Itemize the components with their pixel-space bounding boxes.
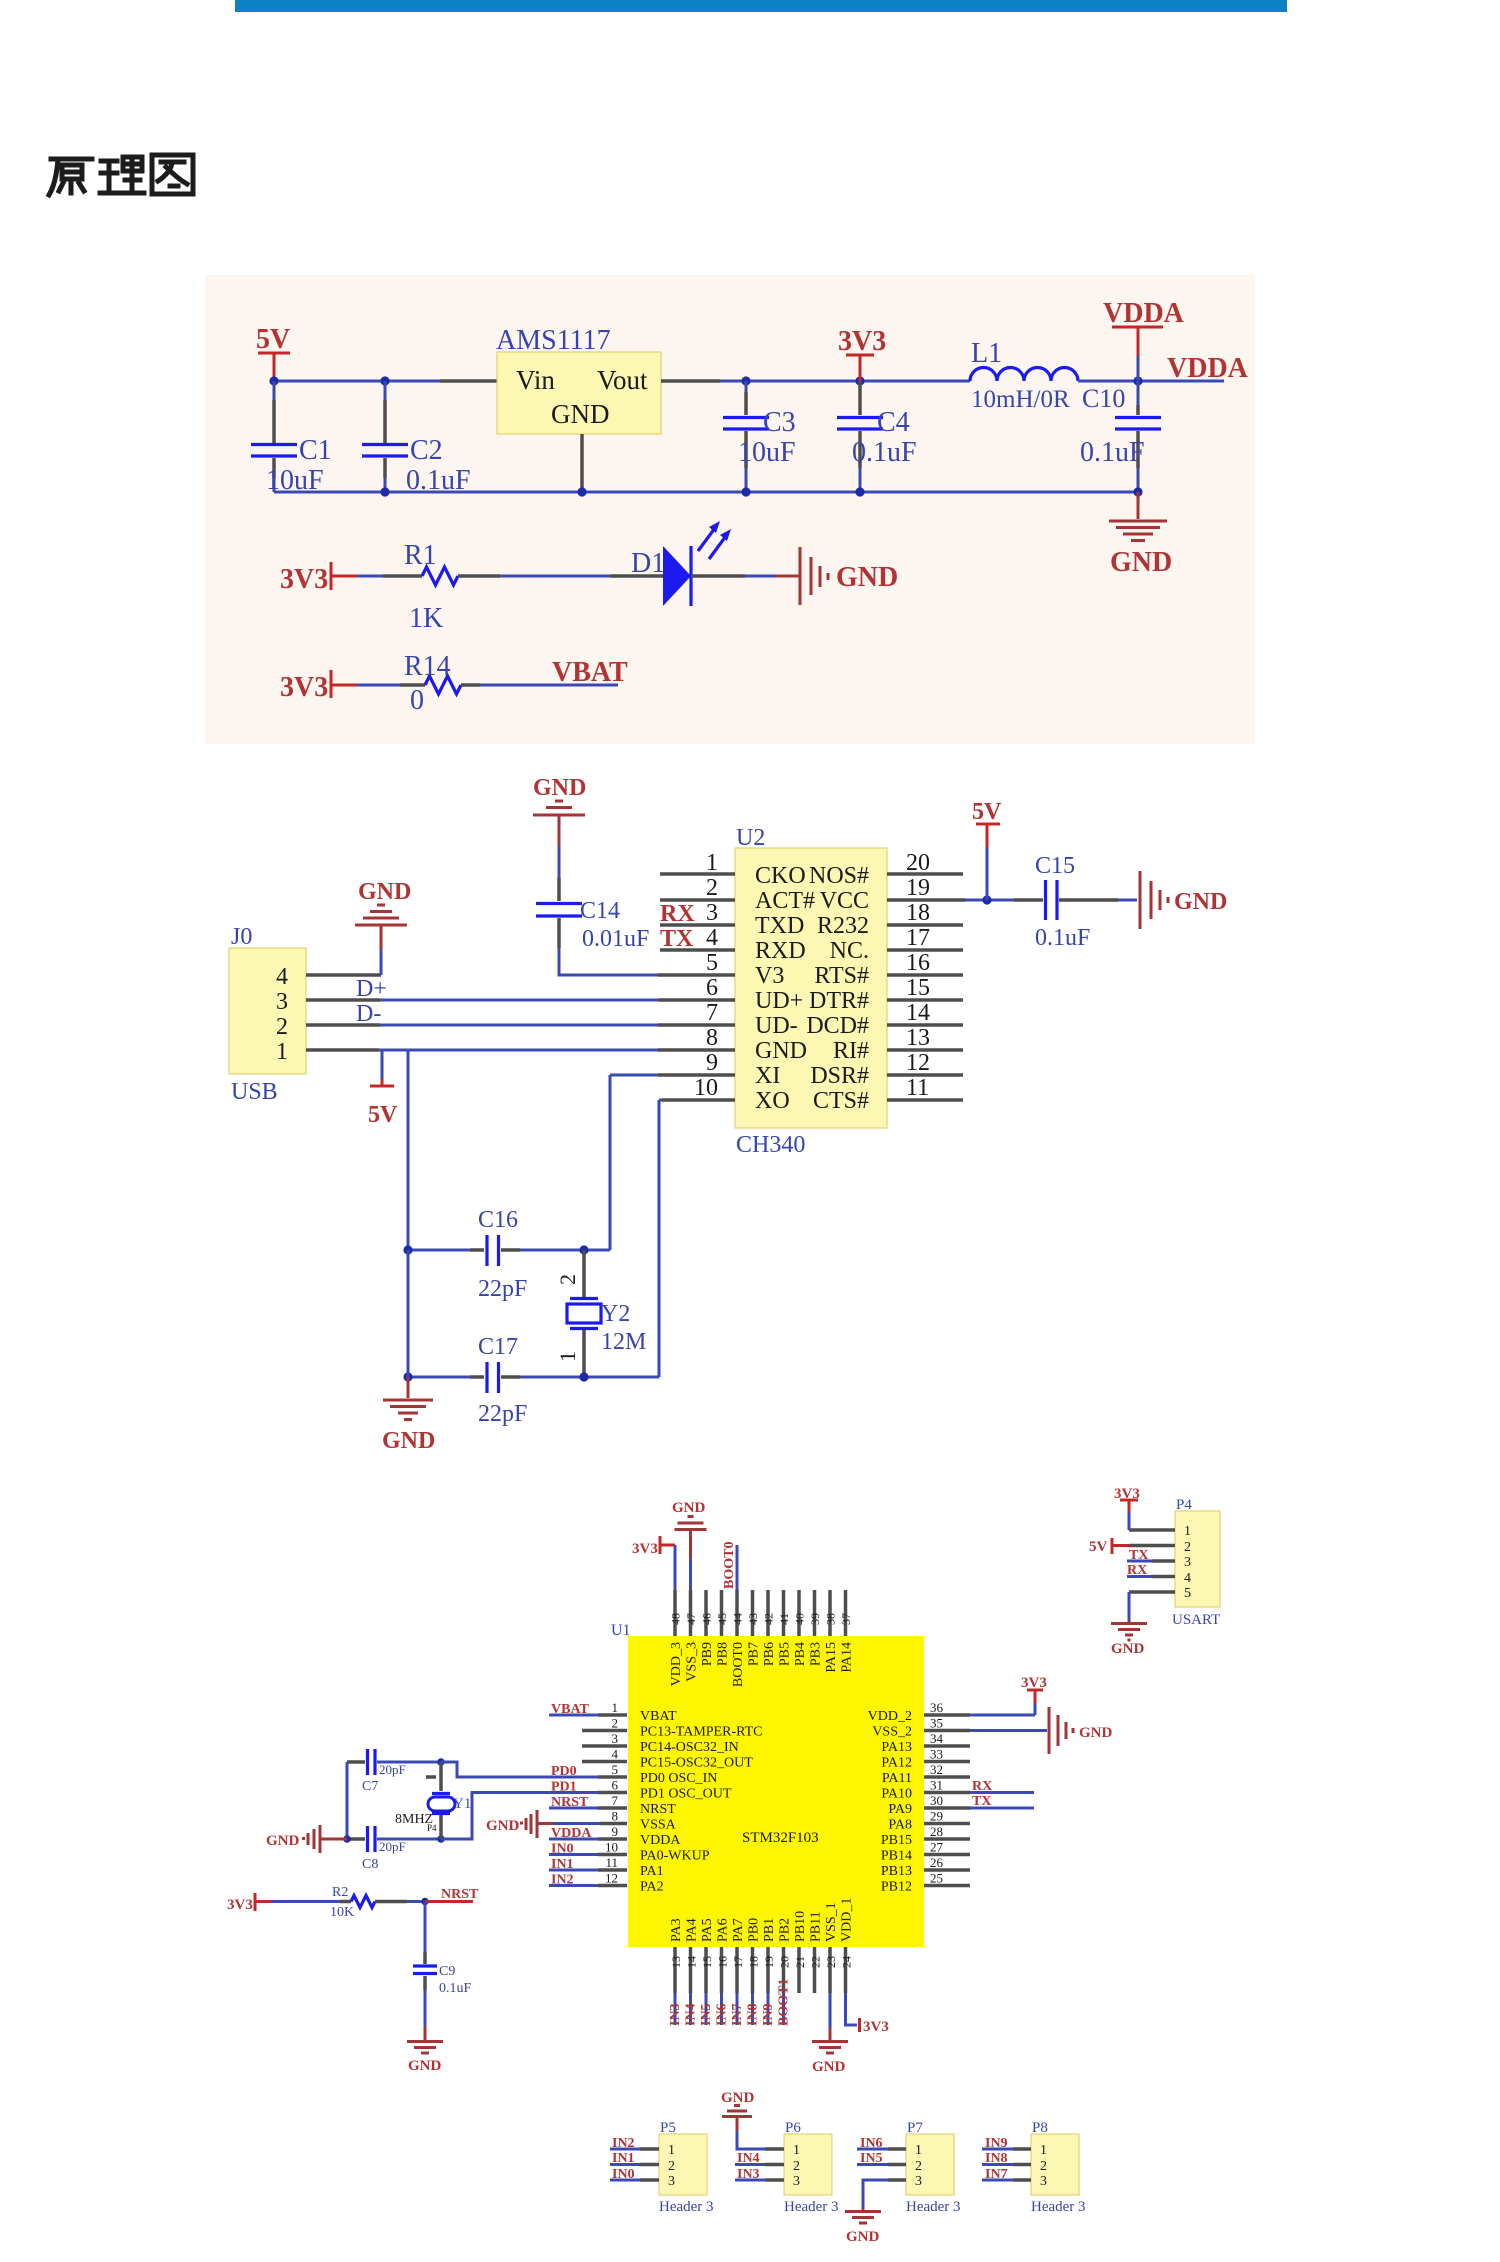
junction 5V/C1: [269, 376, 278, 385]
svg-text:36: 36: [930, 1700, 944, 1715]
svg-text:35: 35: [930, 1716, 943, 1731]
svg-text:PB8: PB8: [716, 1642, 731, 1666]
svg-text:DCD#: DCD#: [806, 1013, 869, 1039]
svg-text:IN1: IN1: [612, 2151, 635, 2166]
junction C17 left: [403, 1372, 412, 1381]
svg-text:3: 3: [276, 989, 288, 1015]
wire R2 to NRST node: [407, 1900, 425, 1903]
svg-text:22pF: 22pF: [478, 1401, 527, 1427]
svg-text:15: 15: [906, 975, 930, 1001]
junction NRST: [421, 1898, 429, 1906]
svg-text:PA2: PA2: [640, 1880, 664, 1895]
P5 pin numbers: [668, 2143, 675, 2189]
svg-text:42: 42: [762, 1613, 776, 1625]
svg-text:IN2: IN2: [612, 2136, 635, 2151]
svg-text:0.1uF: 0.1uF: [852, 437, 917, 468]
svg-text:Header 3: Header 3: [906, 2199, 961, 2215]
svg-text:3V3: 3V3: [632, 1541, 658, 1557]
power port 3V3 top of U1: [632, 1536, 675, 1590]
svg-text:V3: V3: [755, 963, 784, 989]
svg-text:GND: GND: [672, 1500, 706, 1516]
wire XI vertical: [609, 1075, 612, 1250]
svg-text:PB9: PB9: [700, 1642, 715, 1666]
crystal Y1: [395, 1762, 471, 1839]
ground GND below P7: [845, 2208, 881, 2245]
svg-text:IN2: IN2: [551, 1873, 574, 1888]
svg-text:C2: C2: [410, 435, 443, 466]
wire net D-: [380, 1024, 658, 1027]
svg-text:3V3: 3V3: [280, 564, 328, 595]
U1 left net wires: [549, 1715, 600, 1886]
junction Y1 top: [437, 1758, 445, 1766]
P7 pin numbers: [915, 2143, 922, 2189]
diode D1 LED: [610, 521, 745, 606]
wire R14 to VBAT: [480, 684, 618, 687]
svg-text:PD1 OSC_OUT: PD1 OSC_OUT: [640, 1787, 732, 1802]
svg-text:1: 1: [1184, 1524, 1191, 1539]
page title 原理图 (drawn glyphs): [49, 155, 193, 195]
svg-text:25: 25: [930, 1871, 943, 1886]
svg-text:13: 13: [906, 1025, 930, 1051]
svg-text:2: 2: [555, 1274, 580, 1285]
svg-text:P5: P5: [660, 2120, 676, 2136]
U1 left pin stubs: [582, 1715, 627, 1886]
net label NRST: [425, 1887, 479, 1902]
wire ground rail: [274, 491, 1138, 494]
svg-text:GND: GND: [1111, 1641, 1145, 1657]
svg-text:C10: C10: [1082, 384, 1125, 413]
svg-text:USB: USB: [231, 1079, 278, 1105]
U1 left pin numbers: [605, 1700, 619, 1886]
junction C2 bottom: [380, 487, 389, 496]
wire VCC node: [965, 899, 1014, 902]
svg-text:13: 13: [669, 1956, 683, 1968]
svg-text:XO: XO: [755, 1088, 790, 1114]
svg-text:IN9: IN9: [985, 2136, 1008, 2151]
svg-text:3V3: 3V3: [280, 672, 328, 703]
svg-text:10mH/0R: 10mH/0R: [971, 386, 1070, 413]
svg-text:RI#: RI#: [833, 1038, 869, 1064]
wire PD0 net: [441, 1762, 549, 1777]
svg-text:38: 38: [824, 1613, 838, 1625]
svg-text:8: 8: [706, 1025, 718, 1051]
inductor L1: [970, 338, 1078, 413]
svg-text:18: 18: [747, 1956, 761, 1968]
P4 pin4 net RX: [1127, 1563, 1175, 1578]
svg-text:1: 1: [1040, 2143, 1047, 2158]
svg-text:16: 16: [716, 1956, 730, 1968]
svg-text:BOOT0: BOOT0: [722, 1542, 737, 1589]
U2 left pin names: [755, 863, 815, 1114]
svg-text:C14: C14: [580, 898, 620, 924]
junction AMS GND: [577, 487, 586, 496]
U2 pin8 stub: [658, 1048, 735, 1052]
svg-text:GND: GND: [721, 2090, 755, 2106]
svg-text:D1: D1: [631, 548, 665, 579]
svg-text:20: 20: [778, 1956, 792, 1968]
svg-text:PC15-OSC32_OUT: PC15-OSC32_OUT: [640, 1756, 753, 1771]
svg-text:2: 2: [612, 1716, 619, 1731]
regulator U AMS1117: [496, 325, 661, 434]
svg-text:PB4: PB4: [793, 1642, 808, 1666]
svg-text:RX: RX: [972, 1779, 992, 1794]
wire C9 to GND: [424, 1990, 427, 2026]
wire R1 to D1: [500, 575, 610, 578]
svg-text:3V3: 3V3: [863, 2019, 889, 2035]
svg-text:PA11: PA11: [882, 1771, 912, 1786]
net labels U1 left: [551, 1702, 592, 1888]
svg-text:PB2: PB2: [778, 1918, 793, 1942]
power port VDDA top: [1103, 298, 1185, 381]
svg-text:C9: C9: [439, 1964, 455, 1979]
junction C10 bottom: [1133, 487, 1142, 496]
resistor R2: [330, 1885, 407, 1920]
power port 3V3 above P4: [1114, 1486, 1140, 1530]
svg-text:GND: GND: [836, 562, 898, 593]
svg-text:UD+: UD+: [755, 988, 803, 1014]
ground GND above J0: [355, 879, 411, 950]
junction C2 top: [380, 376, 389, 385]
svg-text:41: 41: [777, 1613, 791, 1625]
svg-text:VBAT: VBAT: [640, 1709, 677, 1724]
P6 pin numbers: [793, 2143, 800, 2189]
connector J0 box: [229, 924, 306, 1105]
IC U2 box: [735, 825, 887, 1158]
wire crystal left rail: [346, 1762, 349, 1839]
svg-text:33: 33: [930, 1747, 943, 1762]
capacitor C16: [470, 1207, 527, 1302]
wire pin Vin: [440, 379, 497, 383]
connector P7 box: [906, 2120, 961, 2215]
svg-text:IN8: IN8: [985, 2151, 1008, 2166]
svg-text:VDDA: VDDA: [1103, 298, 1185, 329]
svg-text:3: 3: [793, 2174, 800, 2189]
svg-text:VSSA: VSSA: [640, 1818, 677, 1833]
svg-text:R1: R1: [404, 540, 437, 571]
svg-text:GND: GND: [266, 1833, 300, 1849]
svg-text:5V: 5V: [256, 324, 290, 355]
svg-text:9: 9: [706, 1050, 718, 1076]
U1 right pin numbers: [930, 1700, 944, 1886]
ground GND above P6: [721, 2090, 755, 2131]
U2 pin3 stub / net RX: [660, 901, 735, 927]
svg-text:3: 3: [1040, 2174, 1047, 2189]
svg-text:P8: P8: [1032, 2120, 1048, 2136]
svg-text:20pF: 20pF: [379, 1839, 406, 1854]
svg-text:0: 0: [410, 685, 424, 716]
junction C3 bottom: [741, 487, 750, 496]
junction VDDA node: [1133, 376, 1142, 385]
svg-text:NRST: NRST: [441, 1887, 479, 1902]
svg-text:IN0: IN0: [612, 2167, 635, 2182]
svg-text:GND: GND: [382, 1428, 435, 1454]
svg-text:2: 2: [706, 875, 718, 901]
svg-text:U1: U1: [611, 1622, 631, 1639]
capacitor C8: [347, 1826, 441, 1872]
svg-text:PC14-OSC32_IN: PC14-OSC32_IN: [640, 1740, 739, 1755]
svg-text:PB10: PB10: [793, 1911, 808, 1942]
svg-text:GND: GND: [533, 775, 586, 801]
svg-text:0.1uF: 0.1uF: [1080, 437, 1145, 468]
svg-text:IN3: IN3: [737, 2167, 760, 2182]
svg-text:22: 22: [809, 1956, 823, 1968]
svg-text:24: 24: [840, 1956, 854, 1968]
svg-text:48: 48: [669, 1613, 683, 1625]
svg-text:0.01uF: 0.01uF: [582, 926, 649, 952]
svg-text:3: 3: [1184, 1555, 1191, 1570]
ground GND at VSSA: [486, 1810, 554, 1838]
power port 3V3 below U1 (VDD_1): [846, 1993, 889, 2035]
svg-text:L1: L1: [971, 338, 1002, 369]
svg-text:11: 11: [906, 1075, 929, 1101]
top blue banner bar: [235, 0, 1287, 12]
svg-text:34: 34: [930, 1731, 944, 1746]
U1 top port names: [669, 1642, 855, 1687]
svg-text:TX: TX: [972, 1794, 991, 1809]
U2 pin5 stub: [658, 973, 735, 977]
wire 3V3 to R14: [357, 684, 400, 687]
junction C4 top: [855, 376, 864, 385]
svg-text:Y2: Y2: [601, 1301, 630, 1327]
svg-text:6: 6: [706, 975, 718, 1001]
wire C16 row: [408, 1249, 610, 1252]
U1 bottom pin numbers: [669, 1956, 854, 1968]
junction C16 right / Y2 top: [579, 1245, 588, 1254]
svg-text:PA8: PA8: [888, 1818, 912, 1833]
P6 pin3 net IN3: [735, 2167, 784, 2182]
ground GND right of C15: [1140, 871, 1227, 929]
svg-text:20: 20: [906, 850, 930, 876]
P4 pin5 wire to GND: [1129, 1592, 1175, 1620]
svg-text:NRST: NRST: [551, 1795, 589, 1810]
svg-text:VSS_3: VSS_3: [685, 1642, 700, 1682]
svg-text:1: 1: [276, 1039, 288, 1065]
svg-text:8: 8: [612, 1809, 619, 1824]
wire L1 to VDDA node: [1078, 380, 1224, 383]
svg-text:PA4: PA4: [685, 1918, 700, 1942]
svg-text:12: 12: [906, 1050, 930, 1076]
svg-text:17: 17: [731, 1956, 745, 1968]
U2 pin10 stub: [659, 1099, 735, 1102]
svg-text:PA5: PA5: [700, 1918, 715, 1942]
svg-text:27: 27: [930, 1840, 944, 1855]
svg-text:PA9: PA9: [888, 1802, 912, 1817]
svg-text:GND: GND: [1079, 1725, 1113, 1741]
wire AMS1117 GND pin: [580, 434, 584, 492]
capacitor C2: [362, 381, 471, 496]
U2 right pin names: [806, 863, 869, 1114]
svg-text:C7: C7: [362, 1779, 378, 1794]
svg-text:10K: 10K: [330, 1905, 354, 1920]
P4 pin3 net TX: [1127, 1548, 1175, 1563]
svg-text:IN8: IN8: [746, 2003, 761, 2026]
svg-text:37: 37: [839, 1613, 853, 1625]
capacitor C17: [470, 1334, 527, 1427]
P5 pin1 net IN2: [610, 2136, 659, 2151]
svg-text:14: 14: [906, 1000, 930, 1026]
svg-text:GND: GND: [486, 1818, 520, 1834]
ground GND below P4: [1111, 1620, 1147, 1657]
svg-text:PD1: PD1: [551, 1780, 577, 1795]
svg-text:21: 21: [793, 1956, 807, 1968]
svg-text:PA3: PA3: [669, 1918, 684, 1942]
svg-text:IN7: IN7: [730, 2003, 745, 2026]
svg-text:IN5: IN5: [699, 2003, 714, 2026]
svg-text:IN7: IN7: [985, 2167, 1008, 2182]
svg-text:GND: GND: [358, 879, 411, 905]
svg-text:Y1: Y1: [453, 1796, 471, 1812]
svg-text:PB5: PB5: [778, 1642, 793, 1666]
svg-text:17: 17: [906, 925, 930, 951]
svg-text:VDD_1: VDD_1: [840, 1898, 855, 1942]
power port 3V3 at R2: [227, 1893, 271, 1913]
U2 pin1 stub: [660, 872, 735, 876]
svg-text:GND: GND: [1174, 889, 1227, 915]
svg-text:C8: C8: [362, 1857, 378, 1872]
svg-text:BOOT1: BOOT1: [777, 1979, 792, 2026]
svg-text:IN6: IN6: [860, 2136, 883, 2151]
IC U1 box STM32F103: [611, 1622, 924, 1947]
svg-text:C3: C3: [763, 407, 796, 438]
svg-text:RXD: RXD: [755, 938, 806, 964]
capacitor C14: [536, 846, 649, 952]
wire VSS_1 to GND: [829, 1993, 832, 2028]
svg-text:CTS#: CTS#: [813, 1088, 869, 1114]
svg-text:GND: GND: [846, 2229, 880, 2245]
connector P5 box: [659, 2120, 714, 2215]
U2 pin7 stub: [658, 1023, 735, 1027]
ground GND LED row: [775, 547, 898, 605]
power port 5V below J0: [368, 1050, 398, 1128]
resistor R1: [383, 540, 500, 634]
U2 left pin numbers: [694, 850, 718, 1101]
capacitor C7: [347, 1749, 441, 1794]
svg-text:PA1: PA1: [640, 1864, 664, 1879]
svg-text:19: 19: [906, 875, 930, 901]
wire pin4 up to GND: [380, 950, 383, 975]
svg-text:GND: GND: [408, 2058, 442, 2074]
capacitor C3: [723, 381, 796, 492]
svg-text:CKO: CKO: [755, 863, 806, 889]
U1 bottom pin stubs: [675, 1947, 846, 1993]
svg-text:PB7: PB7: [747, 1642, 762, 1666]
svg-text:0.1uF: 0.1uF: [1035, 925, 1090, 951]
svg-text:C15: C15: [1035, 853, 1075, 879]
svg-text:RTS#: RTS#: [814, 963, 869, 989]
svg-text:6: 6: [612, 1778, 619, 1793]
capacitor C9: [413, 1952, 472, 1996]
svg-text:U2: U2: [736, 825, 765, 851]
svg-text:3: 3: [706, 900, 718, 926]
wire GND vertical below junctions: [407, 1250, 410, 1377]
svg-text:ACT#: ACT#: [755, 888, 815, 914]
svg-text:12M: 12M: [601, 1329, 646, 1355]
nets IN3-IN9 BOOT1 below U1: [675, 1993, 784, 2025]
svg-text:R14: R14: [404, 651, 451, 682]
P8 pin numbers: [1040, 2143, 1047, 2189]
svg-text:VBAT: VBAT: [551, 1702, 590, 1717]
U1 top pin numbers: [669, 1613, 854, 1625]
svg-text:GND: GND: [551, 399, 610, 429]
power port 3V3 VBAT row: [280, 670, 357, 703]
capacitor C1: [251, 381, 332, 496]
svg-text:VBAT: VBAT: [552, 657, 628, 688]
svg-text:1: 1: [555, 1351, 580, 1362]
svg-text:46: 46: [700, 1613, 714, 1625]
svg-text:7: 7: [612, 1793, 619, 1808]
power port 3V3 right of U1: [970, 1675, 1047, 1715]
U2 pin9 stub: [610, 1074, 735, 1077]
svg-text:PA10: PA10: [881, 1787, 912, 1802]
svg-text:IN4: IN4: [737, 2151, 760, 2166]
svg-text:STM32F103: STM32F103: [742, 1830, 819, 1846]
svg-text:47: 47: [684, 1613, 698, 1625]
capacitor C10: [1080, 381, 1161, 492]
svg-text:IN3: IN3: [668, 2003, 683, 2026]
svg-text:4: 4: [612, 1747, 619, 1762]
svg-text:1: 1: [915, 2143, 922, 2158]
svg-text:PB6: PB6: [762, 1642, 777, 1666]
svg-text:R2: R2: [332, 1885, 348, 1900]
svg-text:P4: P4: [427, 1823, 437, 1833]
svg-text:TXD: TXD: [755, 913, 804, 939]
power port 5V at P4 pin2: [1089, 1538, 1175, 1555]
svg-text:DSR#: DSR#: [810, 1063, 869, 1089]
wire net RX (PA10): [970, 1779, 1034, 1794]
wire VSS_2 to GND: [970, 1729, 1047, 1732]
P7 pin1 net IN6: [857, 2136, 906, 2151]
svg-text:PA13: PA13: [881, 1740, 912, 1755]
svg-text:PB0: PB0: [747, 1918, 762, 1942]
svg-text:D+: D+: [356, 976, 387, 1002]
svg-text:40: 40: [793, 1613, 807, 1625]
wire 3V3 rail: [720, 380, 970, 383]
svg-text:RX: RX: [660, 901, 695, 927]
crystal Y2: [555, 1250, 646, 1377]
svg-text:PA15: PA15: [824, 1642, 839, 1673]
svg-text:10: 10: [694, 1075, 718, 1101]
wire J0 pin3 stub: [306, 998, 380, 1002]
svg-text:IN4: IN4: [684, 2003, 699, 2026]
junction C8 left: [343, 1835, 351, 1843]
ground GND below C9: [407, 2026, 443, 2074]
wire Vout pin: [661, 379, 720, 383]
svg-text:4: 4: [1184, 1571, 1191, 1586]
net BOOT0 wire: [722, 1542, 737, 1590]
svg-text:Vout: Vout: [597, 365, 648, 395]
connector P6 box: [784, 2120, 839, 2215]
P6 pin1 wire from GND: [737, 2131, 784, 2149]
svg-text:22pF: 22pF: [478, 1276, 527, 1302]
svg-text:2: 2: [276, 1014, 288, 1040]
junction C17 right / Y2 bottom: [579, 1372, 588, 1381]
capacitor C4: [837, 381, 917, 492]
wire C15 to GND: [1118, 899, 1137, 902]
wire pin1 row to U2 GND: [379, 1049, 658, 1052]
wire J0 pin4: [306, 973, 381, 977]
svg-text:45: 45: [715, 1613, 729, 1625]
junction Y1 bottom: [437, 1835, 445, 1843]
svg-text:14: 14: [685, 1956, 699, 1968]
svg-text:PB11: PB11: [809, 1911, 824, 1942]
svg-text:Header 3: Header 3: [659, 2199, 714, 2215]
wire net D+: [380, 999, 658, 1002]
svg-text:VSS_1: VSS_1: [824, 1902, 839, 1942]
svg-text:29: 29: [930, 1809, 943, 1824]
svg-text:5V: 5V: [972, 799, 1002, 825]
svg-text:3V3: 3V3: [1021, 1675, 1047, 1691]
resistor R14: [400, 651, 480, 716]
